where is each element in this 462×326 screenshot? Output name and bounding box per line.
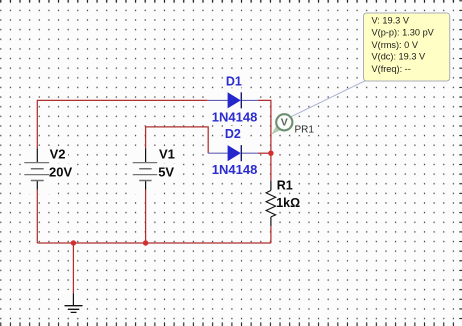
eraser probe xyxy=(274,111,295,134)
probe PR1 circle xyxy=(276,114,292,130)
probe PR1 callout line xyxy=(291,81,365,117)
wire bottom bus xyxy=(37,242,271,244)
bottom edge ticks xyxy=(0,322,462,326)
diode D1 triangle xyxy=(228,92,241,108)
battery V1 leads xyxy=(145,148,147,189)
wire V1 bottom to bus xyxy=(145,190,147,244)
wire V2 bottom to ground bus xyxy=(36,190,38,244)
diode D1 cathode bar xyxy=(240,92,242,108)
probe PR1 pointer wedge xyxy=(271,125,281,134)
svg-text:V: 19.3 V: V: 19.3 V xyxy=(372,15,410,25)
wire D1 cathode to R1 top xyxy=(258,100,271,180)
ground lead xyxy=(72,293,74,305)
svg-text:V(dc): 19.3 V: V(dc): 19.3 V xyxy=(372,52,426,62)
svg-text:V: V xyxy=(281,117,288,129)
top edge ticks xyxy=(0,0,462,3)
eraser V2 label xyxy=(47,147,68,162)
resistor R1 leads xyxy=(270,181,272,227)
measurement callout box xyxy=(364,13,450,81)
eraser 5V label xyxy=(155,164,177,180)
svg-text:V(p-p): 1.30 pV: V(p-p): 1.30 pV xyxy=(372,27,435,37)
eraser V2 battery xyxy=(22,146,54,194)
wire D2 cathode to junction xyxy=(258,152,271,154)
svg-text:PR1: PR1 xyxy=(295,124,315,135)
battery V2 leads xyxy=(36,148,38,189)
eraser 1N4148 upper label xyxy=(211,110,261,124)
right edge ticks xyxy=(459,0,462,326)
svg-text:V2: V2 xyxy=(50,147,66,162)
wire R1 bottom to bus xyxy=(270,226,272,243)
svg-text:R1: R1 xyxy=(277,179,293,193)
svg-text:1N4148: 1N4148 xyxy=(212,109,258,124)
eraser 1kOhm label xyxy=(275,195,302,209)
eraser D2 body xyxy=(206,143,260,165)
eraser 1N4148 lower label xyxy=(211,162,261,177)
eraser R1 label xyxy=(275,178,294,192)
eraser PR1 label xyxy=(294,124,317,135)
junction ground tap xyxy=(71,240,76,245)
svg-text:V1: V1 xyxy=(159,147,175,162)
battery V1 plates xyxy=(133,163,158,175)
diode D1 leads xyxy=(208,99,258,101)
junction V1 tap xyxy=(143,240,148,245)
battery V2 plates xyxy=(24,163,49,175)
wire top bus from V2 to D1 anode xyxy=(37,100,207,148)
svg-text:1N4148: 1N4148 xyxy=(212,162,258,177)
wire V1 top to D2 anode xyxy=(146,127,209,153)
eraser R1 body xyxy=(264,179,279,229)
eraser D2 label xyxy=(224,126,244,140)
svg-text:D2: D2 xyxy=(225,127,241,141)
svg-text:V(rms): 0 V: V(rms): 0 V xyxy=(372,40,419,50)
wire bus to ground xyxy=(72,243,74,293)
svg-text:D1: D1 xyxy=(226,74,242,88)
diode D2 cathode bar xyxy=(240,145,242,161)
svg-text:V(freq): --: V(freq): -- xyxy=(372,64,411,74)
eraser D1 label xyxy=(225,74,244,88)
svg-text:1kΩ: 1kΩ xyxy=(276,196,300,210)
svg-text:20V: 20V xyxy=(49,164,72,179)
resistor R1 zigzag xyxy=(266,190,276,217)
eraser V1 battery xyxy=(130,146,162,194)
svg-text:5V: 5V xyxy=(158,164,174,179)
eraser 20V label xyxy=(47,164,77,180)
junction D2 output node xyxy=(268,151,273,156)
ground bars xyxy=(65,306,83,313)
eraser ground xyxy=(62,290,85,316)
eraser D1 body xyxy=(206,90,260,112)
diode D2 leads xyxy=(208,152,258,154)
diode D2 triangle xyxy=(228,145,241,161)
eraser V1 label xyxy=(155,147,178,162)
